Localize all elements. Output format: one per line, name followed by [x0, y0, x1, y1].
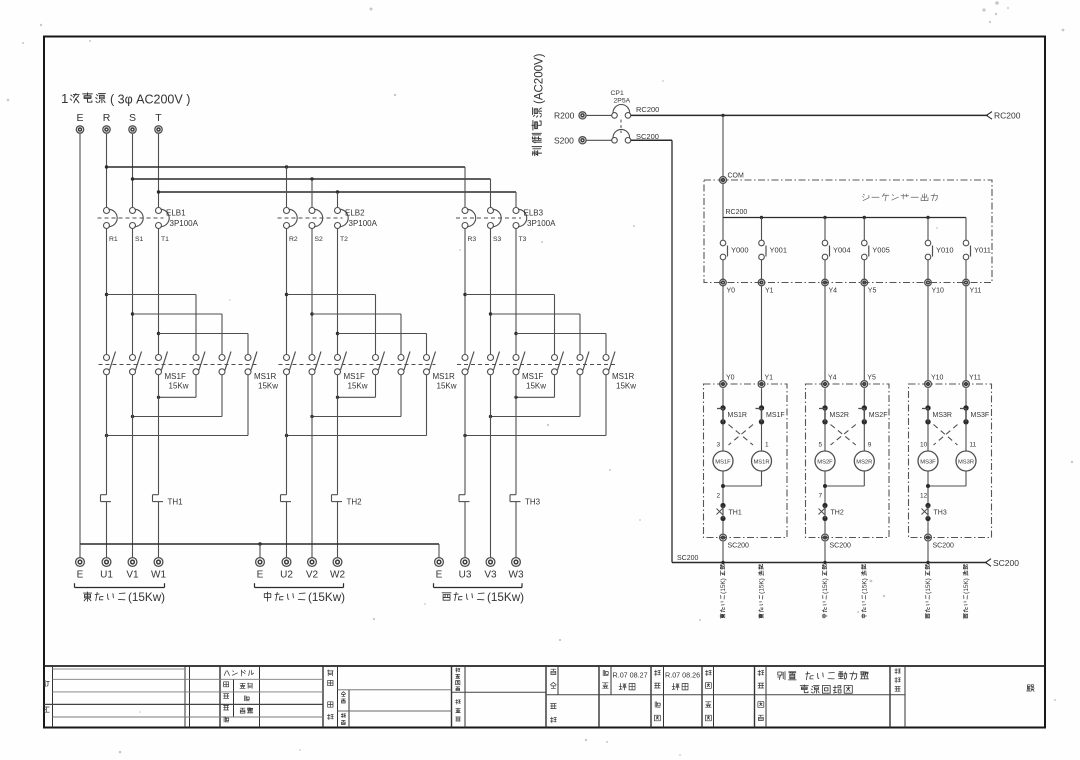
svg-text:15Kw: 15Kw — [258, 382, 278, 391]
pin label S3 — [493, 236, 502, 243]
wire SC200 drop — [824, 542, 826, 563]
svg-text:(15K): (15K) — [963, 578, 970, 594]
node Y5 — [861, 375, 876, 388]
terminal Y0 — [720, 279, 735, 294]
svg-text:S2: S2 — [315, 236, 324, 243]
svg-text:U1: U1 — [100, 570, 113, 581]
wire MS1R pole5 to V output — [131, 375, 222, 419]
thermal contact TH3 — [922, 503, 947, 521]
wire Y1 drop to relay box — [761, 286, 763, 381]
terminal W1 (motor 1) — [151, 558, 166, 581]
wire phase 3 ELB1 to contactor — [158, 228, 160, 354]
svg-text:E: E — [257, 570, 264, 581]
wire phase 2 ELB2 to contactor — [311, 228, 313, 354]
svg-text:2: 2 — [717, 493, 721, 500]
svg-text:Y005: Y005 — [872, 246, 890, 255]
wire R bus drop to ELB2 — [286, 167, 288, 208]
net label: 1次電源 (3φ AC200V) — [61, 91, 190, 106]
net label SC200 — [636, 132, 659, 141]
svg-text:Y010: Y010 — [936, 246, 954, 255]
svg-text:MS3R: MS3R — [933, 412, 952, 419]
svg-text:7: 7 — [819, 493, 823, 500]
wire SC200 down — [631, 140, 672, 562]
svg-text:9: 9 — [868, 442, 872, 449]
title block texts — [43, 668, 1034, 725]
svg-text:(15K): (15K) — [925, 578, 932, 594]
wire U3 to terminal — [464, 502, 466, 558]
terminal V3 (motor 3) — [484, 558, 497, 581]
wire SC200 drop — [927, 542, 929, 563]
NC interlock contact MS1R — [717, 388, 747, 424]
thermal element TH1 (W phase) with label — [153, 495, 184, 507]
svg-text:(AC200V): (AC200V) — [534, 53, 546, 104]
wire to SC200 terminal — [927, 521, 929, 534]
net arrow RC200 right — [987, 111, 1021, 121]
svg-text:ELB3: ELB3 — [524, 209, 544, 218]
svg-text:MS3R: MS3R — [958, 459, 974, 465]
circuit protector CP1 2P5A — [611, 90, 631, 143]
contactor MS2F (forward) 15Kw — [279, 352, 436, 391]
pin 12 — [920, 493, 928, 500]
svg-text:MS1R: MS1R — [753, 459, 769, 465]
terminal E (motor 1) — [76, 558, 85, 581]
terminal U1 (motor 1) — [100, 558, 113, 581]
wire T from terminal to ELB1 — [158, 134, 160, 208]
svg-text:TH1: TH1 — [168, 498, 184, 507]
svg-text:SC200: SC200 — [993, 558, 1019, 568]
PLC output contact Y010 — [925, 218, 953, 280]
wire phase 3 ELB3 to contactor — [515, 228, 517, 354]
svg-text:MS3F: MS3F — [971, 412, 990, 419]
terminal T (primary) — [155, 112, 162, 133]
svg-text:R1: R1 — [109, 236, 118, 243]
pin 10 — [920, 442, 928, 449]
thermal element TH2 (U phase) — [281, 495, 292, 502]
wire Y5 drop to relay box — [863, 286, 865, 381]
PLC sequencer output box — [704, 180, 992, 283]
pin label T3 — [519, 236, 527, 243]
coil MS2F — [815, 424, 835, 472]
net arrow SC200 right — [986, 558, 1020, 568]
svg-text:ELB1: ELB1 — [166, 209, 186, 218]
svg-text:MS1F: MS1F — [766, 412, 785, 419]
pin label R3 — [468, 236, 477, 243]
svg-text:SC200: SC200 — [728, 543, 750, 550]
svg-text:MS1R: MS1R — [433, 372, 455, 381]
svg-text:MS2R: MS2R — [856, 459, 872, 465]
terminal COM — [720, 173, 745, 184]
terminal U3 (motor 3) — [459, 558, 472, 581]
wire coils join — [823, 471, 864, 504]
svg-text:Y5: Y5 — [868, 288, 877, 295]
svg-text:W1: W1 — [151, 570, 166, 581]
wire feed to MS2R pole 1 (junction) — [285, 293, 376, 355]
svg-text:Y000: Y000 — [731, 246, 749, 255]
coil MS2R — [854, 424, 874, 472]
svg-text:3P100A: 3P100A — [170, 219, 199, 228]
R phase bus — [105, 165, 465, 168]
wire SC200 drop — [722, 542, 724, 563]
pin 2 — [717, 493, 721, 500]
svg-text:MS2F: MS2F — [817, 459, 833, 465]
svg-text:COM: COM — [728, 173, 745, 180]
node Y0 — [720, 375, 735, 388]
svg-text:R200: R200 — [554, 111, 575, 121]
svg-text:S3: S3 — [493, 236, 502, 243]
svg-text:(15Kw): (15Kw) — [128, 591, 165, 604]
wire MS3R pole5 to V output — [489, 375, 580, 419]
svg-text:CP1: CP1 — [611, 90, 624, 97]
svg-text:MS2R: MS2R — [830, 412, 849, 419]
svg-text:Y5: Y5 — [867, 375, 876, 382]
relay unit box 1 — [704, 384, 788, 538]
svg-text:R: R — [103, 112, 111, 124]
svg-text:MS1R: MS1R — [254, 372, 276, 381]
wire S bus drop to ELB3 — [490, 179, 492, 208]
wire S200 to CP1 — [587, 139, 612, 141]
wire feed to MS3R pole 2 (junction) — [489, 312, 580, 354]
svg-text:15Kw: 15Kw — [437, 382, 457, 391]
svg-text:W2: W2 — [330, 570, 345, 581]
thermal contact TH1 — [717, 503, 742, 521]
contactor MS3R (reverse) 15Kw — [552, 352, 637, 391]
terminal W2 (motor 2) — [330, 558, 345, 581]
label 中たいこ(15K)逆転 (rotated) — [861, 565, 868, 618]
svg-text:Y11: Y11 — [970, 288, 982, 295]
svg-text:ELB2: ELB2 — [345, 209, 365, 218]
svg-text:W3: W3 — [509, 570, 524, 581]
svg-text:3P100A: 3P100A — [527, 219, 556, 228]
coil MS1F — [713, 424, 733, 472]
coil MS1R — [752, 424, 772, 472]
thermal element TH3 (U phase) — [459, 495, 470, 502]
svg-text:Y011: Y011 — [974, 246, 991, 255]
wire U2 to terminal — [286, 502, 288, 558]
mechanical interlock cross — [934, 425, 958, 446]
svg-text:3P100A: 3P100A — [349, 219, 378, 228]
terminal Y10 — [925, 279, 944, 294]
thermal element TH2 (W phase) with label — [332, 495, 363, 507]
wire phase 2 ELB1 to contactor — [132, 228, 134, 354]
svg-text:RC200: RC200 — [636, 105, 659, 114]
wire S bus drop to ELB2 — [311, 179, 313, 208]
PLC output contact Y005 — [862, 218, 890, 280]
node Y10 — [925, 375, 944, 388]
pin label S2 — [315, 236, 324, 243]
wire E phase down-left — [79, 134, 81, 544]
svg-text:15Kw: 15Kw — [348, 382, 368, 391]
NC interlock contact MS1F — [756, 388, 785, 424]
wire T bus drop to ELB2 — [337, 192, 339, 208]
pin label S1 — [135, 236, 144, 243]
wire U3 output — [464, 375, 466, 495]
circuit breaker ELB2 3P100A — [278, 208, 378, 229]
wire MS1R pole4 to W output — [157, 375, 196, 399]
svg-text:S1: S1 — [135, 236, 144, 243]
wire MS3R pole4 to W output — [514, 375, 554, 399]
svg-text:MS1F: MS1F — [715, 459, 731, 465]
mechanical interlock cross — [729, 425, 754, 446]
wire S from terminal to ELB1 — [132, 134, 134, 208]
PLC output contact Y011 — [963, 218, 991, 280]
terminal SC200 — [720, 534, 749, 549]
wire MS2R pole6 to U output — [285, 375, 427, 438]
wire W2 output — [337, 375, 339, 495]
svg-text:SC200: SC200 — [933, 543, 955, 550]
svg-text:Y10: Y10 — [932, 288, 945, 295]
label 東たいこ(15K)正転 (rotated) — [720, 565, 727, 619]
svg-text:MS2F: MS2F — [869, 412, 888, 419]
svg-text:RC200: RC200 — [994, 111, 1021, 121]
svg-text:MS1R: MS1R — [728, 412, 747, 419]
svg-text:MS1F: MS1F — [165, 372, 186, 381]
wire phase 3 ELB2 to contactor — [337, 228, 339, 354]
NC interlock contact MS3F — [960, 388, 989, 424]
svg-text:2P5A: 2P5A — [614, 98, 631, 105]
wire feed to MS3R pole 1 (junction) — [463, 293, 554, 355]
pin 5 — [819, 442, 823, 449]
net label: 制御電源 (AC200V) vertical — [532, 53, 546, 155]
terminal SC200 — [822, 534, 851, 549]
net label RC200 — [636, 105, 659, 114]
wire U1 to terminal — [106, 502, 108, 558]
svg-text:E: E — [76, 112, 83, 124]
terminal V1 (motor 1) — [126, 558, 139, 581]
svg-text:( 3φ AC200V ): ( 3φ AC200V ) — [110, 93, 190, 107]
svg-text:SC200: SC200 — [636, 132, 659, 141]
svg-text:TH2: TH2 — [347, 498, 363, 507]
terminal Y11 — [963, 279, 982, 294]
svg-text:R.07 08.26: R.07 08.26 — [665, 671, 700, 680]
mechanical interlock cross — [831, 425, 856, 446]
wire phase 1 ELB3 to contactor — [464, 228, 466, 354]
svg-text:TH2: TH2 — [831, 510, 844, 517]
wire MS2R pole4 to W output — [336, 375, 376, 399]
svg-text:Y4: Y4 — [829, 288, 838, 295]
svg-text:TH3: TH3 — [525, 498, 541, 507]
svg-text:(15Kw): (15Kw) — [487, 591, 524, 604]
wire R bus drop to ELB3 — [464, 167, 466, 208]
contactor MS1R (reverse) 15Kw — [193, 352, 278, 391]
wire phase 2 ELB3 to contactor — [490, 228, 492, 354]
svg-text:(15Kw): (15Kw) — [308, 591, 345, 604]
wire phase 1 ELB2 to contactor — [286, 228, 288, 354]
NC interlock contact MS2R — [819, 388, 849, 424]
wire R200 to CP1 — [587, 114, 612, 116]
svg-text:RC200: RC200 — [726, 209, 748, 216]
label 中たいこ(15K)正転 (rotated) — [822, 565, 829, 618]
terminal W3 (motor 3) — [509, 558, 524, 581]
contactor MS2R (reverse) 15Kw — [373, 352, 457, 391]
svg-text:Y1: Y1 — [765, 288, 774, 295]
wire feed to MS1R pole 3 (junction) — [157, 332, 248, 355]
label 西たいこ(15K)逆転 (rotated) — [963, 565, 970, 619]
node Y1 — [758, 375, 773, 388]
wire Y10 drop to relay box — [927, 286, 929, 381]
svg-text:Y10: Y10 — [931, 375, 944, 382]
wire V2 output — [311, 375, 313, 558]
svg-text:R3: R3 — [468, 236, 477, 243]
label 西たいこ(15K)正転 (rotated) — [925, 565, 932, 619]
svg-text:R.07 08.27: R.07 08.27 — [613, 671, 648, 680]
circuit breaker ELB3 3P100A — [456, 208, 556, 229]
wire W3 to terminal — [515, 502, 517, 558]
svg-text:(15K): (15K) — [822, 578, 829, 594]
wire MS1R pole6 to U output — [105, 375, 248, 438]
terminal U2 (motor 2) — [280, 558, 293, 581]
wire R from terminal to ELB1 — [106, 134, 108, 208]
terminal Y1 — [758, 279, 773, 294]
node Y11 — [963, 375, 981, 388]
svg-text:Y4: Y4 — [828, 375, 837, 382]
svg-text:(15K): (15K) — [759, 578, 766, 594]
wire T bus drop to ELB3 — [515, 192, 517, 208]
svg-text:10: 10 — [920, 442, 928, 449]
pin 3 — [717, 442, 721, 449]
RC200 internal bus — [723, 184, 966, 219]
PLC output contact Y001 — [759, 218, 787, 280]
pin 7 — [819, 493, 823, 500]
svg-text:(15K): (15K) — [720, 578, 727, 594]
wire to SC200 terminal — [722, 521, 724, 534]
svg-text:1: 1 — [765, 442, 769, 449]
pin label T1 — [161, 236, 169, 243]
svg-text:15Kw: 15Kw — [616, 382, 636, 391]
coil MS3R — [956, 424, 976, 472]
contactor MS1F (forward) 15Kw — [99, 352, 258, 391]
PLC output contact Y000 — [720, 218, 748, 280]
wire feed to MS3R pole 3 (junction) — [514, 332, 606, 355]
svg-text:V3: V3 — [484, 570, 497, 581]
pin 11 — [970, 442, 977, 449]
wire coils join — [926, 471, 966, 504]
contactor MS3F (forward) 15Kw — [457, 352, 615, 391]
terminal E (motor 3) — [435, 558, 444, 581]
svg-text:TH3: TH3 — [934, 510, 947, 517]
wire to SC200 terminal — [824, 521, 826, 534]
wire RC200 drop to COM — [722, 115, 724, 176]
svg-text:MS1F: MS1F — [344, 372, 365, 381]
terminal Y4 — [822, 279, 837, 294]
wire coils join — [721, 471, 762, 504]
svg-text:1: 1 — [61, 91, 68, 106]
wire feed to MS2R pole 2 (junction) — [310, 312, 401, 354]
NC interlock contact MS2F — [858, 388, 887, 424]
wire phase 1 ELB1 to contactor — [106, 228, 108, 354]
svg-text:S200: S200 — [554, 136, 574, 146]
title block — [44, 666, 1045, 728]
terminal SC200 — [925, 534, 954, 549]
label シーケンサー出力 — [863, 194, 938, 201]
net label RC200 (internal) — [726, 209, 748, 216]
svg-text:T3: T3 — [519, 236, 527, 243]
svg-text:SC200: SC200 — [677, 555, 699, 562]
pin 1 — [765, 442, 769, 449]
svg-text:V1: V1 — [126, 570, 139, 581]
relay unit box 2 — [806, 384, 890, 538]
svg-text:T2: T2 — [340, 236, 348, 243]
circuit breaker ELB1 3P100A — [98, 208, 199, 229]
svg-text:MS3F: MS3F — [920, 459, 936, 465]
svg-text:V2: V2 — [306, 570, 319, 581]
T phase bus — [157, 190, 516, 193]
wire feed to MS1R pole 2 (junction) — [131, 312, 222, 354]
terminal V2 (motor 2) — [306, 558, 319, 581]
wire W1 to terminal — [158, 502, 160, 558]
wire Y0 drop to relay box — [722, 286, 724, 381]
svg-text:SC200: SC200 — [830, 543, 852, 550]
label 西たいこ (15Kw) — [434, 583, 525, 604]
svg-text:(15K): (15K) — [861, 578, 868, 594]
label 東たいこ (15Kw) — [75, 583, 166, 604]
svg-text:U2: U2 — [280, 570, 293, 581]
relay unit box 3 — [909, 384, 992, 538]
svg-text:MS1R: MS1R — [612, 372, 634, 381]
node Y4 — [822, 375, 837, 388]
svg-text:R2: R2 — [289, 236, 298, 243]
wire U2 output — [286, 375, 288, 495]
svg-text:E: E — [436, 570, 443, 581]
svg-text:U3: U3 — [459, 570, 472, 581]
thermal element TH1 (U phase) — [101, 495, 112, 502]
svg-text:E: E — [77, 570, 84, 581]
coil MS3F — [918, 424, 938, 472]
svg-text:Y0: Y0 — [727, 288, 736, 295]
wire W2 to terminal — [337, 502, 339, 558]
S phase bus — [131, 177, 491, 180]
svg-text:T: T — [155, 112, 162, 124]
label 中たいこ (15Kw) — [255, 583, 346, 604]
wire MS3R pole6 to U output — [463, 375, 606, 438]
pin label R2 — [289, 236, 298, 243]
svg-text:3: 3 — [717, 442, 721, 449]
terminal R200 — [554, 111, 586, 121]
svg-text:S: S — [129, 112, 136, 124]
thermal contact TH2 — [819, 503, 844, 521]
svg-text:MS1F: MS1F — [522, 372, 543, 381]
wire V1 output — [132, 375, 134, 558]
pin label T2 — [340, 236, 348, 243]
pin label R1 — [109, 236, 118, 243]
svg-text:15Kw: 15Kw — [169, 382, 189, 391]
svg-text:Y004: Y004 — [833, 246, 851, 255]
svg-text:Y11: Y11 — [969, 375, 981, 382]
terminal S200 — [554, 136, 586, 146]
PLC output contact Y004 — [822, 218, 850, 280]
wire W3 output — [515, 375, 517, 495]
svg-text:11: 11 — [970, 442, 977, 449]
terminal E (primary) — [76, 112, 83, 133]
terminal E (motor 2) — [256, 558, 265, 581]
label 東たいこ(15K)逆転 (rotated) — [759, 565, 766, 619]
svg-text:Y1: Y1 — [765, 375, 774, 382]
wire U1 output — [106, 375, 108, 495]
wire feed to MS1R pole 1 (junction) — [105, 293, 196, 355]
svg-text:T1: T1 — [161, 236, 169, 243]
terminal R (primary) — [103, 112, 111, 133]
wire W1 output — [158, 375, 160, 495]
wire V3 output — [490, 375, 492, 558]
thermal element TH3 (W phase) with label — [510, 495, 541, 507]
svg-text:TH1: TH1 — [729, 510, 742, 517]
svg-text:12: 12 — [920, 493, 928, 500]
svg-text:5: 5 — [819, 442, 823, 449]
wire Y11 drop to relay box — [965, 286, 967, 381]
earth bus E — [80, 542, 439, 558]
terminal S (primary) — [129, 112, 136, 133]
wire MS2R pole5 to V output — [310, 375, 401, 419]
SC200 bus — [672, 555, 987, 564]
